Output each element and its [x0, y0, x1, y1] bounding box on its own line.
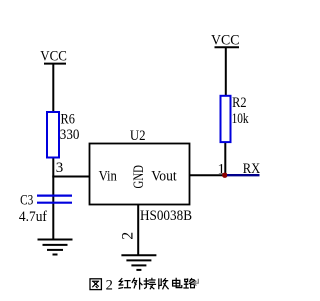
svg-text:C3: C3: [20, 192, 33, 208]
svg-text:GND: GND: [131, 165, 147, 189]
resistor R6: [47, 112, 79, 158]
caption pilcrow return mark: [194, 279, 199, 285]
capacitor C3: [19, 192, 72, 225]
wire U2 Vout to node RX: [190, 174, 226, 176]
svg-text:R6: R6: [61, 112, 76, 128]
power VCC (right): [211, 33, 240, 49]
caption char HONG (red): [119, 279, 130, 289]
wire pin3 to U2 Vin: [52, 176, 89, 178]
svg-text:4.7uf: 4.7uf: [19, 209, 47, 225]
wire RX net stub: [227, 174, 260, 176]
caption char DIAN (electric): [173, 278, 182, 287]
wire R6 to ground through C3: [52, 157, 54, 240]
caption char LU (road): [184, 279, 195, 288]
wire VCC to R6 (left rail): [52, 64, 54, 112]
caption char JIE (receive): [144, 278, 155, 288]
svg-text:2: 2: [119, 232, 136, 240]
power VCC (left): [40, 49, 67, 65]
ground (left): [38, 240, 73, 255]
resistor R2: [221, 95, 249, 142]
svg-text:U2: U2: [130, 128, 146, 144]
caption char TU (figure): [90, 279, 101, 290]
caption: figure 2 infrared receiver circuit (hand-drawn CJK glyphs): [90, 277, 198, 293]
svg-text:VCC: VCC: [40, 49, 67, 65]
svg-text:2: 2: [106, 277, 113, 293]
wire R2 to node RX: [224, 142, 226, 175]
caption char SHOU (collect): [159, 279, 168, 289]
wire U2 GND pin to ground: [137, 205, 139, 255]
caption char WAI (outside): [132, 278, 142, 289]
svg-text:10k: 10k: [232, 111, 249, 127]
svg-text:Vout: Vout: [151, 168, 177, 184]
IC U2 HS0038B body: [90, 128, 193, 224]
node RX junction dot: [222, 173, 227, 178]
svg-text:VCC: VCC: [211, 33, 240, 49]
svg-text:R2: R2: [232, 95, 246, 111]
wire VCC to R2 (right rail): [225, 48, 227, 96]
svg-text:Vin: Vin: [99, 168, 118, 184]
svg-text:HS0038B: HS0038B: [140, 208, 192, 224]
ground (bottom, U2 pin 2): [121, 255, 156, 270]
svg-text:3: 3: [56, 160, 64, 176]
svg-text:330: 330: [60, 127, 80, 143]
svg-text:RX: RX: [243, 161, 261, 177]
